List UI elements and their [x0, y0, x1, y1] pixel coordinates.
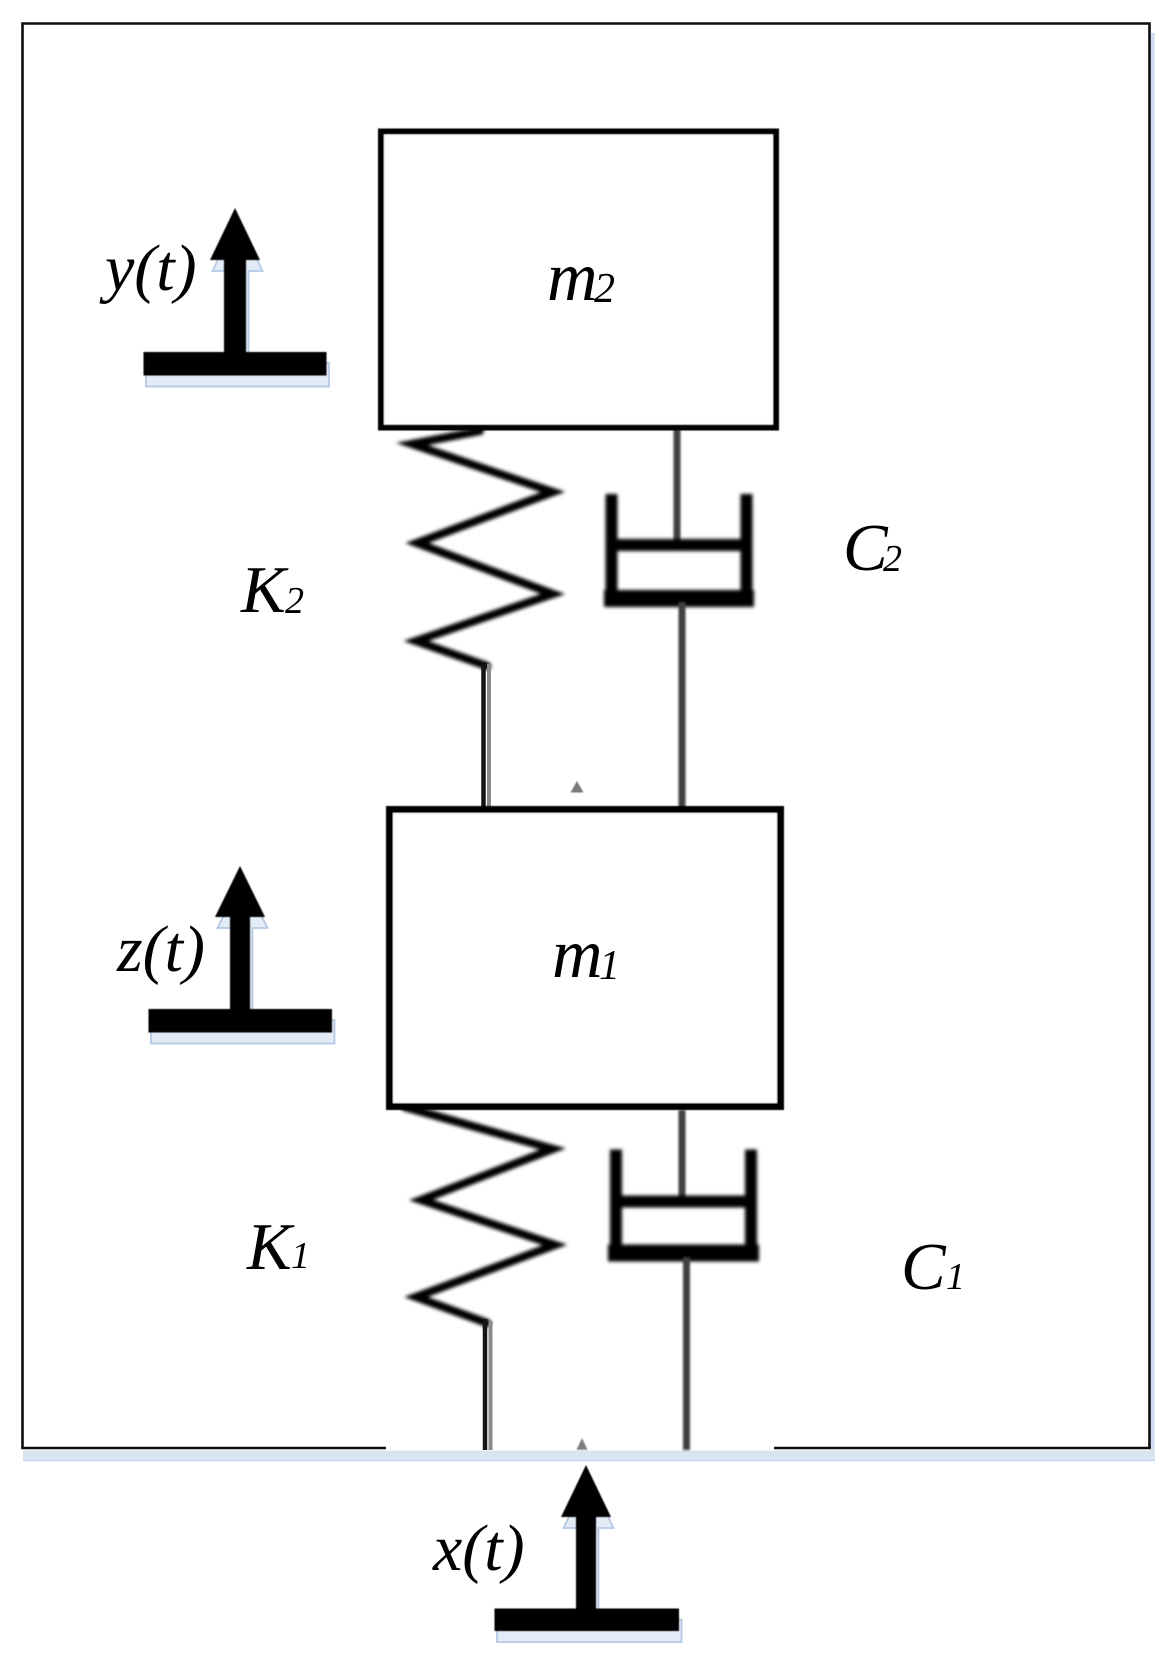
damper C2 upper rod: [674, 429, 681, 547]
damper C1 cup: [608, 1150, 759, 1254]
arrow x(t) shadow: [564, 1476, 614, 1620]
frame shadow bottom band: [23, 1451, 1155, 1462]
wire: K2 lower rod: [484, 662, 490, 812]
arrow y(t): [144, 208, 327, 376]
node: gray arrow tip above m1: [571, 781, 584, 793]
spring K1: [405, 1107, 555, 1323]
svg-text:2: 2: [883, 538, 902, 580]
svg-text:1: 1: [599, 943, 620, 989]
frame border bottom-left segment: [21, 1447, 386, 1450]
arrow z(t) shadow: [218, 877, 268, 1020]
svg-text:C: C: [901, 1230, 947, 1304]
mass m1 box: [390, 810, 781, 1107]
svg-text:2: 2: [594, 266, 615, 312]
damper C2 cup: [604, 494, 754, 599]
arrow z(t): [149, 866, 333, 1033]
damper C1 upper rod: [679, 1110, 686, 1203]
svg-text:m: m: [547, 239, 598, 316]
wire: K1 lower rod: [485, 1319, 491, 1450]
svg-text:z(t): z(t): [116, 913, 205, 986]
spring K2: [412, 431, 553, 666]
mass m2 box: [381, 132, 776, 428]
damper C1 lower rod: [683, 1257, 690, 1450]
arrow y(t) shadow: [213, 219, 263, 363]
svg-text:x(t): x(t): [432, 1512, 525, 1585]
arrow x(t): [495, 1465, 680, 1631]
svg-text:1: 1: [291, 1235, 310, 1277]
svg-text:1: 1: [946, 1256, 965, 1298]
frame border bottom-right segment: [774, 1447, 1151, 1450]
frame shadow right strip: [1151, 33, 1155, 1461]
svg-text:y(t): y(t): [99, 232, 197, 305]
node: gray arrow tip above ground: [577, 1438, 588, 1450]
svg-text:2: 2: [285, 580, 304, 622]
svg-text:K: K: [246, 1210, 295, 1284]
svg-text:m: m: [552, 916, 603, 993]
damper C2 lower rod: [679, 602, 686, 812]
svg-text:K: K: [240, 553, 289, 627]
